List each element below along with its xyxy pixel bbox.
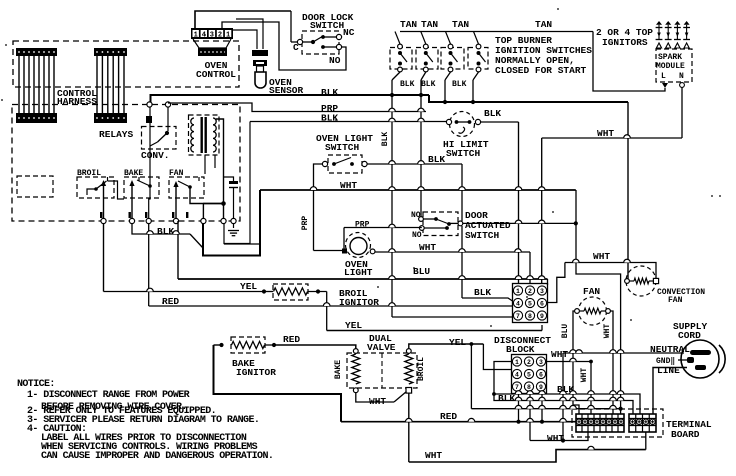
wire broil ignitor out — [308, 291, 327, 293]
wire crossover — [418, 187, 425, 190]
WHT riser broil coil to bottom bus — [408, 393, 410, 462]
svg-text:CLOSED FOR START: CLOSED FOR START — [495, 65, 587, 76]
wire crossover — [459, 187, 466, 190]
BLK bus jog to convection fan riser — [429, 95, 628, 102]
top ignitor symbol 2 — [665, 21, 671, 25]
relay BAKE enclosure — [124, 177, 159, 198]
wire crossover — [570, 397, 577, 400]
broil relay coil wire — [87, 189, 96, 195]
wire crossover — [588, 446, 595, 449]
S4 bottom terminal — [476, 67, 481, 72]
wire diagonal to WHT riser — [190, 234, 203, 248]
capacitor C1 — [229, 181, 238, 184]
TAN wire to spark module L — [593, 32, 665, 92]
svg-text:9: 9 — [540, 313, 544, 320]
spark module terminal N — [680, 83, 685, 88]
svg-text:BLK: BLK — [321, 113, 338, 124]
door lock NO wire — [323, 46, 336, 48]
S2 upper contact — [424, 51, 428, 55]
wire crossover — [610, 397, 617, 400]
BLK wire hi-limit to block — [481, 121, 519, 123]
block A pin 1 — [513, 286, 522, 295]
ribbon wires — [97, 56, 124, 113]
bake coil bottom terminal — [353, 388, 358, 393]
svg-text:BROIL: BROIL — [417, 357, 426, 381]
convection fan left terminal — [625, 279, 630, 284]
ribbon wires — [19, 56, 54, 113]
disconnect block B pin 8 — [524, 382, 533, 391]
wire crossover — [570, 391, 577, 394]
block A outline — [513, 284, 548, 323]
S3 BLK diagonal — [445, 72, 451, 80]
svg-text:NO: NO — [411, 211, 421, 220]
wire crossover — [389, 249, 396, 252]
svg-text:WHT: WHT — [551, 349, 568, 360]
wire bake relay out lateral — [132, 224, 190, 235]
convection fan body — [626, 266, 656, 296]
door lock NC contact — [321, 35, 325, 39]
S4 blade — [479, 53, 486, 62]
junction S2 on BLK bus — [419, 93, 423, 97]
door lock pivot — [311, 40, 315, 44]
GND stub — [678, 359, 687, 361]
spark module terminal L — [662, 83, 668, 88]
wire crossover — [459, 276, 466, 279]
wire crossover — [389, 118, 396, 121]
wire broil to bake relay — [108, 181, 125, 199]
disconnect block B outline — [512, 355, 547, 394]
svg-text:7: 7 — [515, 384, 519, 391]
junction on WHT riser — [619, 407, 623, 411]
wire crossover — [538, 276, 545, 279]
junction S3 on BLK bus — [443, 100, 447, 104]
wire crossover — [576, 350, 583, 353]
BLU wire fan to strip1 — [573, 311, 579, 414]
svg-text:BLK: BLK — [381, 132, 390, 147]
wire crossover — [515, 187, 522, 190]
door lock NO terminal — [336, 44, 341, 49]
junction transformer node — [221, 201, 226, 206]
ignition switch S2 top terminal — [423, 44, 428, 49]
wire crossover — [617, 350, 624, 353]
fan lead R — [601, 310, 606, 312]
S1 blade — [400, 53, 407, 62]
broil coil bottom terminal square — [406, 388, 412, 394]
WHT jumper diagonal — [394, 392, 407, 403]
oven control header (hatched) — [198, 48, 227, 56]
WHT drop to strip1 — [590, 362, 592, 415]
svg-text:6: 6 — [540, 300, 544, 307]
relay board bottom terminal blu out — [173, 218, 178, 223]
S2 blade — [426, 53, 433, 62]
WHT wire block B pin3 — [547, 361, 592, 363]
terminal board strip 1 — [576, 414, 624, 432]
door lock switch enclosure — [302, 31, 339, 54]
oven sensor wire 2 — [236, 19, 263, 49]
strip2 bottom drop — [645, 432, 647, 450]
door lock NC terminal — [336, 34, 341, 39]
relay board bottom terminal broil out — [101, 218, 106, 223]
block B pin8 drop — [529, 394, 531, 441]
wire fan relay node to transformer node — [203, 203, 223, 205]
svg-text:4: 4 — [516, 300, 520, 307]
wire hi-limit BLK to relay board terminal — [224, 122, 250, 244]
wire crossover — [515, 249, 522, 252]
S4 BLK diagonal — [473, 72, 479, 80]
wire crossover — [389, 108, 396, 111]
wire crossover — [588, 391, 595, 394]
svg-text:1: 1 — [516, 288, 520, 295]
wire crossover — [515, 220, 522, 223]
disconnect block B pin 5 — [524, 369, 533, 378]
oven light switch left terminal — [322, 161, 327, 166]
junction bake ignitor left — [219, 343, 223, 347]
convection fan lead R — [649, 280, 653, 282]
wire crossover — [515, 391, 522, 394]
junction bake ignitor right — [272, 343, 276, 347]
bake ignitor feed — [214, 344, 222, 346]
wire crossover — [418, 108, 425, 111]
fan motor body — [579, 297, 607, 325]
S2 BLK drop long — [420, 80, 422, 219]
connector shroud trapezoid — [193, 39, 231, 48]
oven light switch right terminal — [362, 161, 367, 166]
junction YEL tee — [470, 342, 474, 346]
ignition switch S3 enclosure — [441, 48, 464, 70]
wire crossover — [310, 187, 317, 190]
block A pin 8 — [525, 311, 534, 320]
svg-text:8: 8 — [527, 384, 531, 391]
fan left terminal — [575, 309, 580, 314]
svg-text:BLK: BLK — [484, 108, 501, 119]
svg-text:WHT: WHT — [593, 251, 610, 262]
svg-text:TAN: TAN — [421, 19, 438, 30]
wire YEL branch down — [470, 344, 472, 409]
oven sensor body upper — [253, 60, 267, 66]
svg-text:2: 2 — [528, 288, 532, 295]
wire crossover — [418, 118, 425, 121]
wire crossover — [610, 350, 617, 353]
S2 lower contact — [424, 62, 428, 66]
disconnect block B pin 1 — [512, 357, 521, 366]
wire crossover — [588, 405, 595, 408]
wire crossover — [147, 288, 154, 291]
top ignitor symbol 4 — [684, 21, 690, 25]
svg-text:WHT: WHT — [419, 242, 436, 253]
wire crossover — [610, 405, 617, 408]
svg-text:BLK: BLK — [428, 154, 445, 165]
wire crossover — [588, 397, 595, 400]
wire lower run to WHT riser — [471, 408, 621, 410]
top ignitor symbol 3 — [674, 21, 680, 25]
svg-text:YEL: YEL — [449, 337, 466, 348]
svg-text:RED: RED — [283, 334, 300, 345]
svg-text:BLU: BLU — [413, 266, 430, 277]
bake relay moving contact — [129, 180, 134, 186]
ribbon connector upper bar — [16, 48, 57, 56]
relay CONV enclosure — [142, 127, 177, 150]
disconnect block B pin 2 — [524, 357, 533, 366]
oven light bulb — [350, 238, 367, 255]
disconnect block B pin 9 — [536, 382, 545, 391]
svg-text:LIGHT: LIGHT — [344, 267, 373, 278]
BLK drop to block A pin1 — [518, 122, 520, 284]
bake ignitor enclosure — [231, 337, 265, 353]
door switch lower contact — [445, 226, 449, 230]
svg-text:FAN: FAN — [583, 286, 600, 297]
broil relay moving contact — [101, 180, 106, 186]
block A pin 3 — [537, 286, 546, 295]
disconnect block B pin 4 — [512, 369, 521, 378]
transformer core — [201, 117, 203, 153]
hi limit contact R — [468, 120, 472, 124]
wire crossover — [527, 418, 534, 421]
broil relay pivot — [94, 187, 98, 191]
wire transformer stub — [214, 155, 216, 168]
WHT wire fan to strip1 — [610, 311, 613, 414]
wire crossover — [459, 249, 466, 252]
svg-text:BLK: BLK — [321, 87, 338, 98]
S4 BLK drop — [472, 80, 474, 102]
conv relay blade — [158, 133, 168, 142]
oven light switch enclosure — [328, 155, 362, 173]
WHT wire lamp to block A — [375, 251, 530, 253]
fan relay moving contact — [173, 181, 178, 187]
svg-text:1: 1 — [515, 359, 519, 366]
convection fan lead L — [630, 280, 635, 282]
oven sensor wire 1 — [233, 30, 257, 49]
hi limit left terminal — [446, 119, 451, 124]
svg-text:SPARK: SPARK — [658, 53, 682, 62]
WHT bus drop to terminal board — [576, 190, 621, 414]
door actuated NO lower terminal — [419, 226, 424, 231]
PRP wire into lamp — [314, 250, 343, 252]
svg-text:2: 2 — [218, 31, 222, 39]
NEUTRAL drop — [562, 353, 564, 441]
disconnect block B pin 7 — [512, 382, 521, 391]
wire crossover — [570, 405, 577, 408]
door lock NC wire — [323, 36, 336, 38]
S4 lower contact — [477, 62, 481, 66]
ribbon connector lower bar — [16, 113, 57, 123]
TAN bus — [400, 31, 593, 33]
block A pin 9 — [537, 311, 546, 320]
wire into C — [291, 41, 300, 43]
svg-text:RED: RED — [440, 411, 457, 422]
RED wire to terminal board — [341, 421, 576, 423]
svg-text:CAN CAUSE IMPROPER AND DANGERO: CAN CAUSE IMPROPER AND DANGEROUS OPERATI… — [41, 451, 273, 462]
junction door line on bus drop — [574, 221, 578, 225]
wire crossover — [147, 231, 154, 234]
svg-text:WHT: WHT — [597, 128, 614, 139]
wire crossover — [617, 397, 624, 400]
lower dashed enclosure (relay board) — [12, 105, 240, 222]
oven sensor bulb — [255, 72, 266, 88]
capacitor top wire — [224, 177, 234, 181]
oven sensor neck — [257, 66, 264, 72]
svg-text:1: 1 — [226, 31, 230, 39]
oven light lamp outline — [346, 233, 371, 258]
wire oven control to door lock NO — [235, 22, 346, 70]
WHT return relay board U-wire — [203, 190, 260, 256]
hi limit right terminal — [475, 119, 480, 124]
hi limit switch body — [450, 112, 475, 137]
relay board bottom terminal red out — [146, 218, 151, 223]
fan relay output wire BLU — [175, 186, 177, 221]
WHT drop to block A pin2 — [529, 252, 531, 284]
junction S1 on BLK bus — [390, 93, 394, 97]
door lock blade — [313, 36, 324, 43]
oven control connector P1 — [191, 28, 233, 39]
conv relay feed wire — [167, 107, 169, 131]
oven light switch contact L — [332, 162, 336, 166]
wire crossover — [515, 405, 522, 408]
wire crossover — [539, 397, 546, 400]
wire block A pin6 staircase to WHT — [548, 263, 565, 303]
ignition switch S4 enclosure — [468, 48, 488, 70]
svg-text:FAN: FAN — [668, 296, 683, 305]
WHT wire to convection fan — [565, 263, 656, 279]
svg-text:NO: NO — [329, 55, 341, 66]
relay board bottom terminal xfmr out — [221, 218, 226, 223]
wire tag — [186, 212, 188, 218]
svg-text:1- DISCONNECT RANGE FROM POWER: 1- DISCONNECT RANGE FROM POWER — [27, 390, 190, 401]
S1 lower contact — [398, 62, 402, 66]
svg-text:BLOCK: BLOCK — [506, 344, 535, 355]
door switch common wire — [449, 222, 458, 224]
capacitor bottom wire — [233, 188, 235, 222]
broil relay wire down — [103, 224, 105, 292]
terminal board dashed enclosure — [572, 409, 663, 437]
wire crossover — [389, 276, 396, 279]
ignition switch S1 enclosure — [390, 48, 412, 70]
junction BLK lines — [492, 392, 496, 396]
svg-text:BAKE: BAKE — [334, 360, 343, 379]
convection fan winding — [634, 278, 649, 284]
BLK riser to convection fan — [627, 102, 629, 279]
fan right terminal — [606, 309, 611, 314]
door lock NO contact — [321, 45, 325, 49]
svg-text:L: L — [661, 72, 666, 81]
svg-text:NC: NC — [343, 27, 355, 38]
junction S4 on BLK bus — [471, 100, 475, 104]
wire crossover — [538, 220, 545, 223]
door switch upper wire — [423, 218, 436, 220]
wire crossover — [624, 259, 631, 262]
junction pin7 on RED — [516, 420, 520, 424]
terminal board strip 2 — [629, 414, 656, 432]
svg-text:RELAYS: RELAYS — [99, 129, 134, 140]
svg-text:BOARD: BOARD — [671, 429, 700, 440]
S3 BLK drop — [444, 80, 446, 102]
S3 lower contact — [449, 62, 453, 66]
svg-text:WHT: WHT — [580, 368, 589, 383]
door switch upper contact — [434, 217, 438, 221]
S2 BLK diagonal — [421, 72, 426, 80]
supply cord plug — [681, 340, 719, 378]
bake relay pivot — [148, 184, 152, 188]
transformer primary winding — [191, 118, 194, 152]
door actuated common terminal — [458, 221, 463, 226]
svg-text:N: N — [679, 72, 684, 81]
disconnect block B pin 3 — [536, 357, 545, 366]
wire crossover — [538, 187, 545, 190]
RED return wire — [214, 345, 342, 422]
conv relay throw — [150, 142, 158, 146]
svg-text:YEL: YEL — [345, 320, 362, 331]
transformer T1 enclosure — [189, 115, 220, 155]
ribbon connector upper bar — [94, 48, 127, 56]
N wire down — [681, 88, 683, 139]
wire crossover — [323, 303, 330, 306]
oven light switch blade — [334, 158, 351, 165]
PRP wire lamp to door actuated switch — [344, 227, 422, 229]
svg-text:TAN: TAN — [400, 19, 417, 30]
wire crossover — [560, 397, 567, 400]
broil ignitor enclosure — [273, 284, 308, 300]
wire crossover — [610, 391, 617, 394]
BLK wire to block A pin7 — [392, 316, 513, 318]
wire crossover — [624, 135, 631, 138]
S4 TAN drop — [474, 32, 479, 45]
S2 TAN drop — [421, 32, 426, 45]
svg-text:WHT: WHT — [369, 396, 386, 407]
svg-text:WHT: WHT — [425, 450, 442, 461]
ground below capacitor terminal — [228, 231, 239, 236]
fan relay pivot — [188, 185, 192, 189]
svg-text:WHT: WHT — [547, 433, 564, 444]
wire crossover — [527, 276, 534, 279]
bake relay blade — [137, 180, 150, 186]
wire — [264, 291, 273, 293]
wire — [265, 344, 274, 346]
oven light right terminal — [370, 249, 375, 254]
wire transformer to fan relay — [204, 155, 206, 174]
svg-text:TAN: TAN — [452, 19, 469, 30]
svg-text:SWITCH: SWITCH — [465, 230, 500, 241]
BLU into block A top corner — [547, 279, 549, 285]
svg-text:SWITCH: SWITCH — [325, 142, 360, 153]
oven light left contact — [342, 249, 347, 254]
broil relay output wire — [103, 185, 105, 221]
YEL wire into block B pin4 — [483, 344, 512, 370]
ground stem — [233, 224, 235, 229]
svg-text:PRP: PRP — [301, 216, 310, 231]
BLU wire horizontal — [178, 278, 548, 280]
wire crossover — [468, 418, 475, 421]
ignition switch S1 top terminal — [398, 44, 403, 49]
dual valve enclosure — [347, 353, 417, 388]
svg-text:BLK: BLK — [474, 287, 491, 298]
ignition switch S2 enclosure — [416, 48, 438, 70]
BLK drop door switch to block A — [461, 226, 463, 298]
fan relay feed wire — [190, 187, 203, 221]
wire crossover — [539, 391, 546, 394]
convection fan right terminal square — [653, 278, 658, 283]
svg-text:WHT: WHT — [603, 324, 612, 339]
wire crossover — [406, 418, 413, 421]
junction broil ignitor right — [316, 289, 320, 293]
svg-text:BLK: BLK — [498, 393, 515, 404]
PRP wire from terminal 2 — [168, 103, 426, 112]
hi limit actuator squiggle — [459, 127, 465, 133]
S3 TAN drop — [446, 32, 451, 45]
svg-text:6: 6 — [539, 371, 543, 378]
wire crossover — [389, 187, 396, 190]
relay board bottom terminal gnd out — [231, 218, 236, 223]
BLK wire to strip2 — [494, 394, 640, 414]
fan relay fixed stub — [198, 177, 200, 181]
